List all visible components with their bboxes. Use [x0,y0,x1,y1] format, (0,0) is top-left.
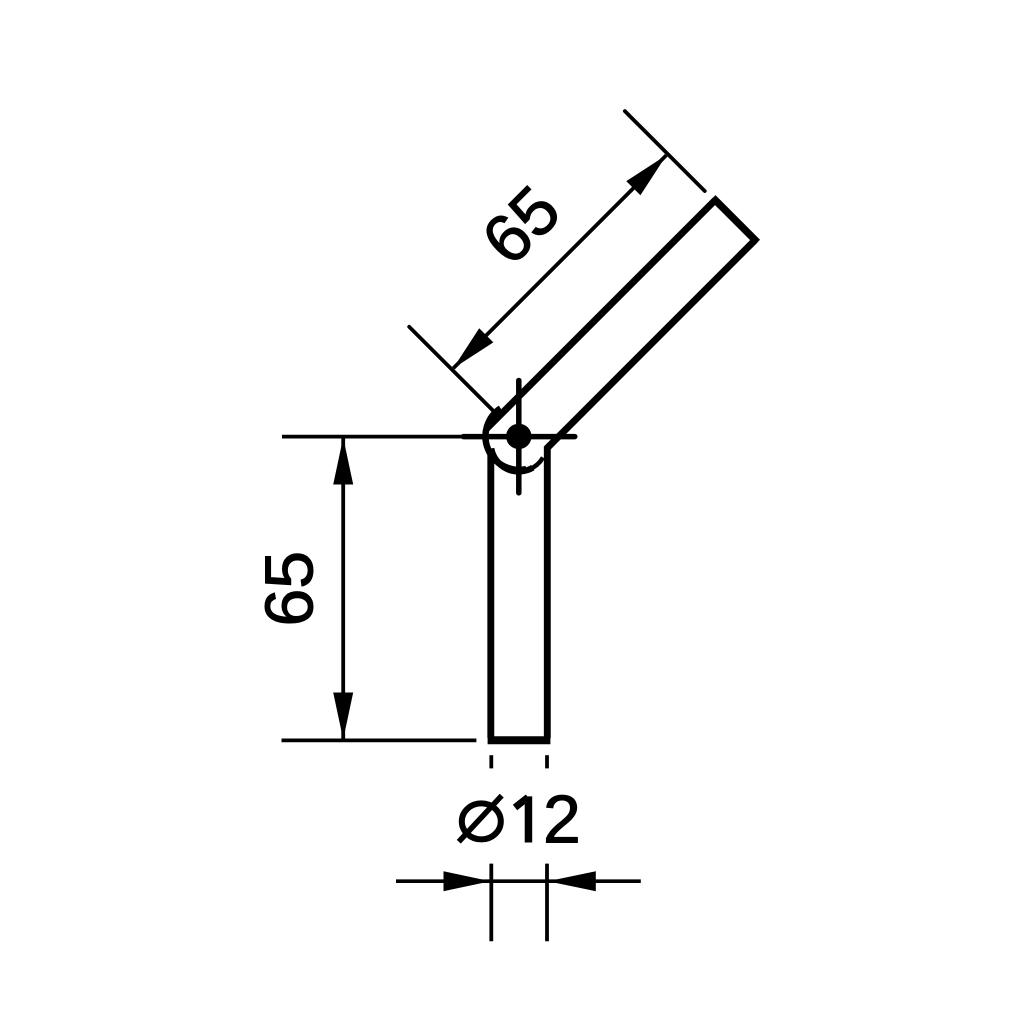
bottom dim line [396,879,641,883]
left dim line [341,437,345,740]
arm white fill [499,198,757,456]
arm lower edge [546,240,755,449]
bottom ext tick right [545,755,549,768]
centerline vertical [516,381,522,493]
bottom dim label 12 [515,782,581,858]
tube cap arc sliver [529,458,543,470]
left dim top extension line [282,435,463,439]
vertical tube right edge [544,446,551,738]
diameter symbol slash [459,796,502,842]
angled arm (rotated frame: x along arm up-right, origin at pivot) [484,198,758,472]
bottom ext segment left [489,864,493,942]
bottom ext segment right [545,864,549,942]
svg-text:2: 2 [543,782,581,858]
pivot dot [506,424,531,449]
diagonal dimension (65) in arm frame [388,90,712,414]
diameter symbol circle [462,803,501,839]
pivot joint circle arc [485,408,526,470]
left dim bottom extension line [282,739,477,743]
bottom ext tick left [489,755,493,768]
centerline horizontal [463,434,574,440]
arm upper edge [486,200,715,429]
arm end cap [713,198,758,243]
tube rounded cap arc [491,448,533,471]
left dim arrow bottom [333,693,353,740]
left dim label 65 [252,551,328,627]
svg-text:65: 65 [252,551,328,627]
diag dim line [453,155,666,368]
vertical tube left edge [487,452,494,738]
bottom arrow left (points right) [444,871,491,891]
diag dim far extension line [625,111,705,191]
left dim arrow top [333,438,353,485]
vertical tube bottom cap [488,736,551,744]
diag dim near extension line [409,327,496,414]
bottom arrow right (points left) [548,871,596,891]
diag arrow near [446,328,493,375]
diag arrow far [626,148,673,195]
